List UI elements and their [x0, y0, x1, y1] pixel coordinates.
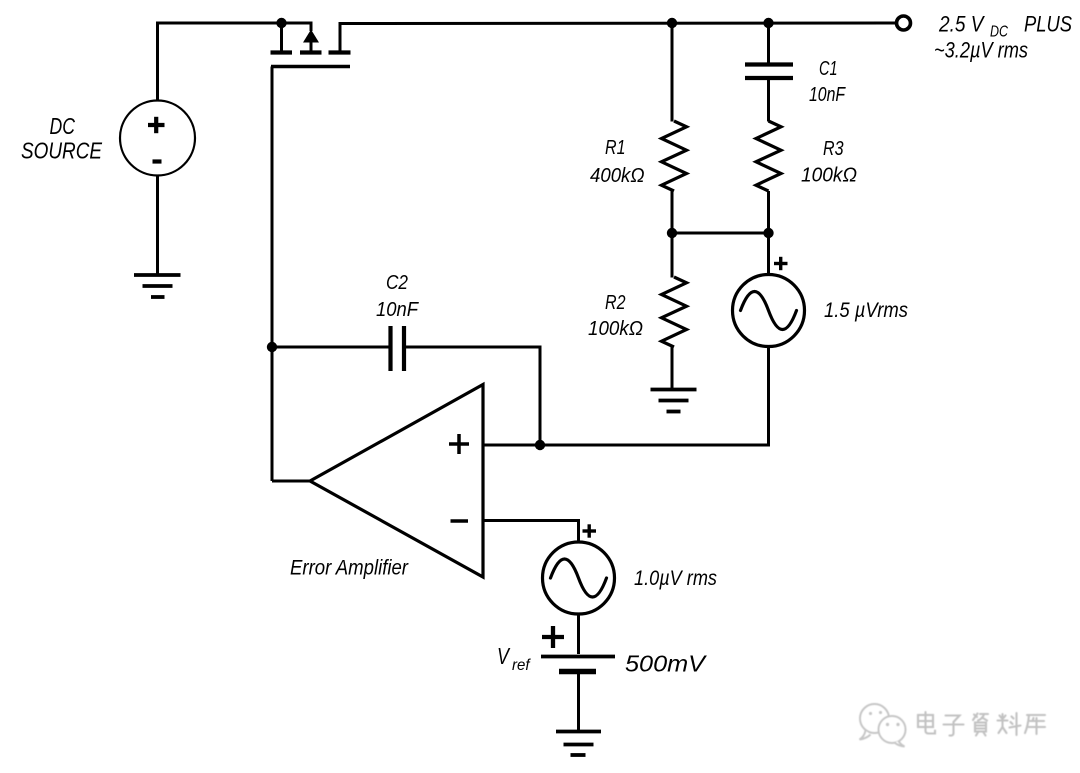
wire: top to C1	[767, 23, 770, 63]
label C1 10nF	[809, 58, 846, 106]
svg-text:PLUS: PLUS	[1024, 12, 1072, 37]
resistor R2	[662, 277, 687, 347]
svg-text:SOURCE: SOURCE	[21, 138, 103, 164]
svg-text:100kΩ: 100kΩ	[588, 318, 643, 340]
plus input marker	[449, 434, 469, 454]
node: gate/C2 junction	[267, 342, 277, 352]
battery Vref	[541, 626, 615, 672]
svg-text:Error Amplifier: Error Amplifier	[290, 557, 409, 580]
watermark logo icon	[860, 704, 906, 747]
wire: R3 bottom	[767, 191, 770, 233]
svg-text:~3.2µV rms: ~3.2µV rms	[934, 38, 1028, 63]
label: V ref	[497, 643, 531, 674]
node: junction at C1 top	[763, 18, 773, 28]
resistor R1	[662, 121, 687, 191]
wire: R2 to ground	[671, 347, 674, 388]
capacitor C2	[391, 326, 405, 371]
svg-text:100kΩ: 100kΩ	[801, 165, 857, 187]
wire: node to R2	[671, 233, 674, 278]
wire: battery to ground	[577, 674, 580, 730]
svg-text:R3: R3	[823, 138, 844, 160]
ground: below DC source	[134, 275, 181, 297]
watermark text zi	[944, 716, 964, 736]
DC source V1	[120, 101, 195, 176]
svg-text:C2: C2	[386, 272, 408, 294]
capacitor C1	[745, 65, 793, 79]
svg-text:10nF: 10nF	[809, 84, 846, 106]
op-amp U1 error amplifier	[310, 385, 483, 578]
wire: op-amp output to gate line	[272, 480, 310, 483]
watermark text liao	[998, 713, 1021, 735]
watermark text zi2	[973, 714, 988, 736]
label C2 10nF	[376, 272, 420, 321]
svg-text:V: V	[497, 643, 511, 669]
svg-text:1.5 µVrms: 1.5 µVrms	[824, 299, 908, 322]
minus input marker	[451, 519, 469, 523]
transistor Q1 PMOS pass FET	[271, 23, 353, 67]
wire: DC source bottom vertical	[156, 176, 159, 275]
wire: C2 left side	[272, 346, 389, 349]
wire: AC source 2 to battery	[577, 614, 580, 654]
plus sign: AC source 1 polarity	[774, 257, 788, 270]
output terminal	[897, 16, 911, 30]
plus sign: AC source 2 polarity	[583, 524, 597, 537]
ground: below battery	[556, 732, 601, 756]
wire: drain to output terminal	[340, 22, 896, 26]
label R2 100k	[588, 292, 643, 340]
AC source 1.0uV rms	[543, 542, 615, 614]
wire: gate vertical down to error amplifier output	[271, 67, 274, 482]
wire: AC source 1 bottom L to op-amp plus input	[540, 347, 769, 446]
AC source 1.5uVrms	[733, 275, 805, 347]
label R3 100k	[801, 138, 857, 187]
svg-text:500mV: 500mV	[625, 651, 708, 677]
label: output voltage	[934, 12, 1072, 63]
svg-text:C1: C1	[819, 58, 838, 80]
wire: minus input L to AC source 2	[483, 521, 579, 543]
label: DC SOURCE	[21, 113, 103, 164]
wire: plus input	[483, 444, 540, 447]
wire: top to R1	[671, 23, 674, 122]
wire: DC source top vertical	[156, 23, 159, 101]
svg-text:DC: DC	[50, 113, 76, 139]
node: R3/source junction	[763, 228, 773, 238]
svg-text:ref: ref	[512, 657, 531, 674]
node: supply junction at Q1 source	[276, 18, 286, 28]
wire: feedback node horizontal	[672, 232, 769, 235]
wire: R1 bottom	[671, 191, 674, 233]
node: plus input junction	[535, 440, 545, 450]
label R1 400k	[590, 137, 645, 187]
wire: top-left horizontal from DC source to Q1 source	[156, 22, 282, 25]
svg-text:R2: R2	[605, 292, 626, 314]
node: junction at R1 top	[667, 18, 677, 28]
ground: below R2	[651, 390, 697, 412]
resistor R3	[756, 121, 781, 191]
wire: C2 right side down to plus input	[406, 347, 541, 445]
svg-text:400kΩ: 400kΩ	[590, 165, 645, 187]
svg-text:1.0µV rms: 1.0µV rms	[634, 567, 717, 590]
wire: C1 to R3	[767, 80, 770, 122]
node: R1/R2 junction	[667, 228, 677, 238]
watermark text dian	[918, 712, 1045, 736]
svg-text:10nF: 10nF	[376, 299, 420, 321]
wire: node to AC source 1	[767, 233, 770, 275]
watermark text ku	[1025, 715, 1045, 734]
svg-text:R1: R1	[605, 137, 626, 159]
svg-text:2.5 V: 2.5 V	[938, 12, 985, 37]
